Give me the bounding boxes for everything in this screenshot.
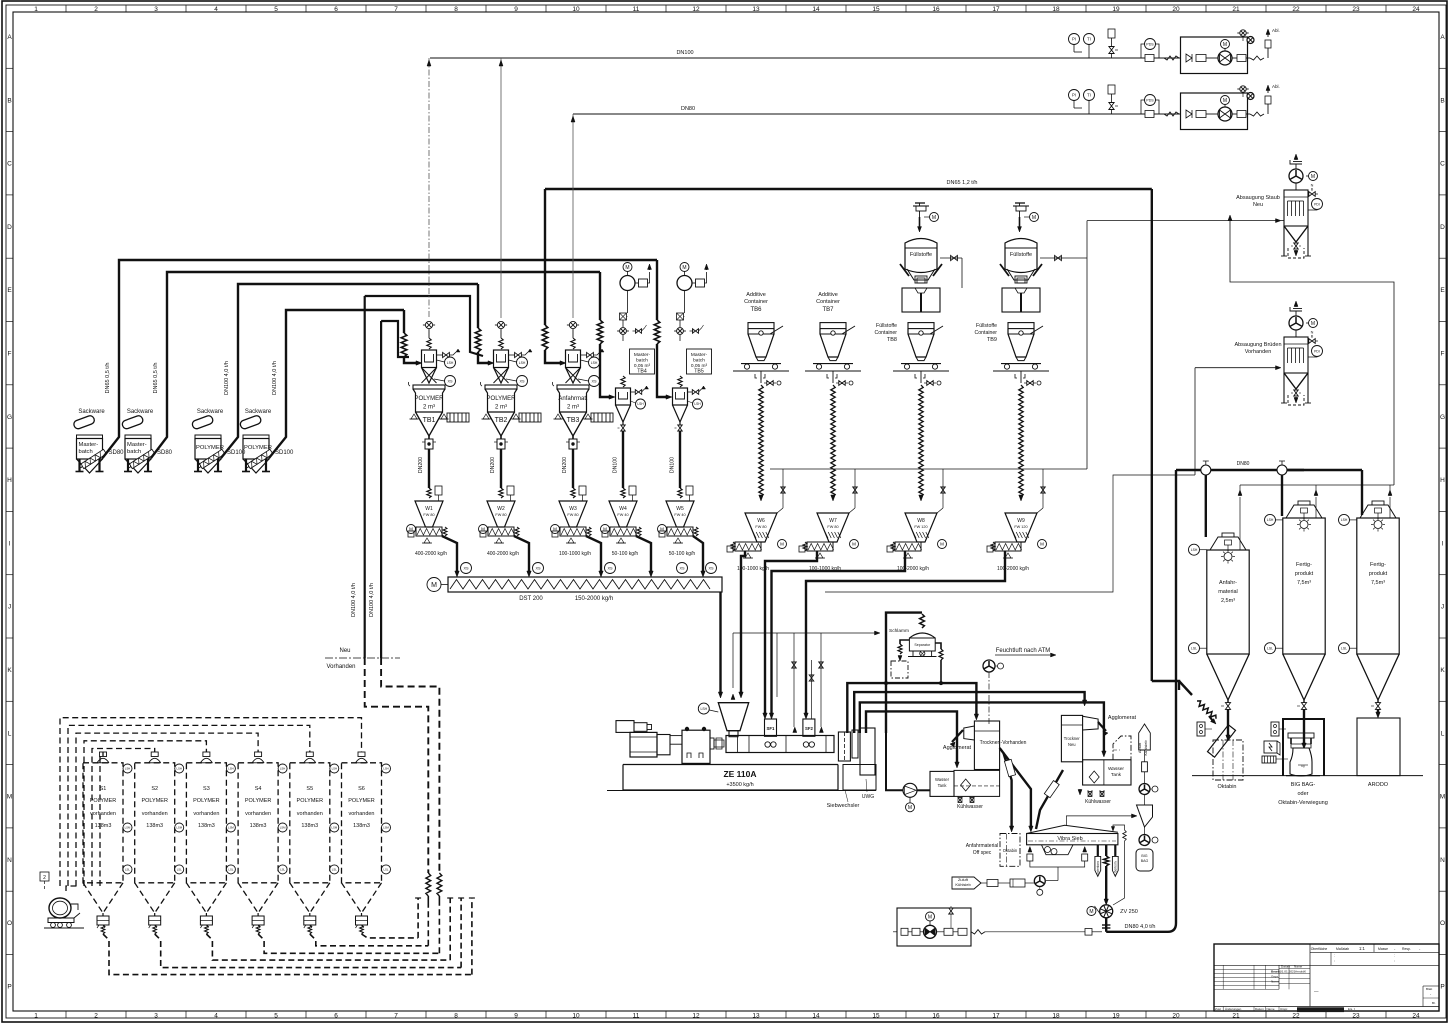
vacuum valve line TB8: [940, 257, 962, 259]
silo dome: [252, 758, 264, 763]
svg-text:138m3: 138m3: [250, 823, 267, 829]
bag spout and frame: [907, 269, 935, 280]
buffer hopper: [485, 385, 517, 389]
svg-text:15: 15: [872, 1013, 880, 1020]
drop to silo 2: [1281, 475, 1283, 516]
melt/water bold lines from UWG (staircase to dryers): [847, 683, 976, 733]
svg-text:LSM: LSM: [280, 826, 286, 830]
DN100 silo transfer risers (S-silos to TB1/TB2): [364, 296, 366, 658]
svg-text:Master-: Master-: [127, 442, 147, 448]
ground line: [607, 790, 876, 792]
weigh hopper: [415, 501, 443, 527]
hoist: [916, 206, 926, 211]
drop to silo 1: [1205, 475, 1207, 537]
tanker truck: [49, 898, 71, 918]
vent valve line: [937, 508, 943, 513]
vacuum line to top header: [428, 58, 430, 318]
svg-text:B: B: [7, 97, 11, 104]
svg-text:Master-: Master-: [79, 442, 99, 448]
svg-text:Wasser: Wasser: [1108, 766, 1124, 772]
svg-text:D: D: [7, 224, 12, 231]
weigh feeder W4: [621, 488, 625, 498]
motor M: [407, 525, 416, 534]
svg-text:A: A: [7, 34, 12, 41]
svg-text:—: —: [1314, 989, 1319, 994]
discharge spout: [443, 527, 447, 536]
svg-text:L: L: [1441, 730, 1445, 737]
svg-text:DN200: DN200: [418, 457, 424, 473]
vent box: [629, 486, 636, 495]
svg-text:J: J: [8, 604, 11, 611]
svg-text:Oktabin: Oktabin: [1218, 784, 1237, 790]
BIG BAG small: [1136, 849, 1153, 871]
svg-text:Unterkorn: Unterkorn: [1096, 861, 1100, 875]
svg-text:LSH: LSH: [447, 361, 454, 365]
svg-text:2 m³: 2 m³: [423, 405, 435, 411]
docking valve below floor: [755, 374, 765, 378]
legs: [197, 459, 199, 471]
extruder base frame: [623, 765, 838, 791]
docking cone: [756, 357, 766, 361]
svg-text:Feuchtluft nach ATM: Feuchtluft nach ATM: [996, 648, 1051, 654]
vent box: [579, 486, 586, 495]
legs: [245, 459, 247, 471]
instrument XS: [589, 376, 600, 387]
svg-text:19: 19: [1112, 6, 1120, 13]
svg-text:POLYMER: POLYMER: [193, 798, 220, 804]
svg-text::: :: [1334, 954, 1335, 958]
svg-text:LSM: LSM: [228, 826, 234, 830]
svg-text:Füllstoffe: Füllstoffe: [876, 323, 897, 329]
svg-text:LSH: LSH: [519, 361, 526, 365]
svg-text:Name: Name: [1294, 965, 1303, 969]
silo dome: [200, 758, 212, 763]
vacuum pump with motor: [680, 263, 689, 272]
instrument LSH: [636, 399, 646, 409]
svg-text:XS: XS: [607, 566, 613, 570]
instrument PDS with bypass: [1145, 95, 1156, 106]
DN80 4,0 t/h line: [1106, 470, 1176, 932]
agitator arm: [1030, 326, 1043, 334]
svg-text:I: I: [9, 540, 11, 547]
bold discharge route: [741, 551, 745, 694]
svg-text:Fertig-: Fertig-: [1296, 562, 1312, 568]
silo body (dashed): [290, 763, 330, 883]
vacuum pump with motor: [623, 263, 632, 272]
branch to off-spec Oktabin with slide gate: [1004, 753, 1012, 828]
svg-text:138m3: 138m3: [301, 823, 318, 829]
vent valve with flag: [509, 354, 516, 356]
silo vent header to filters: [1240, 484, 1394, 486]
discharge valve: [1303, 700, 1305, 703]
vacuum line to top header: [572, 114, 574, 318]
vent valve with flag: [437, 354, 444, 356]
receiver with filter: [494, 350, 509, 368]
svg-text:LSL: LSL: [1267, 646, 1273, 650]
svg-text:LSH: LSH: [280, 767, 285, 771]
svg-text:2,5m³: 2,5m³: [1221, 598, 1235, 604]
silo cone: [1207, 654, 1249, 700]
svg-text:1: 1: [34, 1013, 38, 1020]
coil above receiver: [678, 376, 682, 387]
level switches: [382, 764, 391, 773]
receiver cone: [422, 368, 437, 384]
discharge screw diagonal: [199, 449, 225, 468]
svg-text:LSM: LSM: [125, 826, 131, 830]
motor M: [1038, 540, 1047, 549]
svg-text:vorhanden: vorhanden: [142, 811, 168, 817]
svg-text:138m3: 138m3: [353, 823, 370, 829]
UWG discharge block: [860, 728, 875, 775]
weigh hopper: [487, 501, 515, 527]
silo cone (dashed): [238, 883, 278, 913]
svg-text:ArnoldK: ArnoldK: [1295, 970, 1307, 974]
instrument TI: [1084, 90, 1095, 101]
svg-text:17: 17: [992, 6, 1000, 13]
conveyor discharge to extruder hopper: [719, 592, 721, 694]
vent box with valve: [1108, 29, 1115, 38]
instrument LSH: [589, 357, 600, 368]
svg-text:H: H: [1440, 477, 1445, 484]
svg-text:oder: oder: [1297, 791, 1308, 797]
top dome: [1210, 537, 1246, 550]
svg-text:12: 12: [692, 6, 700, 13]
silo fill lines (dashed, from truck risers to silo tops): [60, 718, 362, 886]
svg-text:Oberfläche: Oberfläche: [1311, 947, 1328, 951]
svg-text:M: M: [1089, 909, 1093, 915]
svg-text:LSL: LSL: [1191, 646, 1197, 650]
svg-text:produkt: produkt: [1295, 571, 1314, 577]
svg-text:4: 4: [214, 6, 218, 13]
support feet: [555, 414, 561, 419]
Abluft Kühlsieb tag: [1139, 724, 1151, 750]
vent box: [507, 486, 514, 495]
svg-text:Anfahr-: Anfahr-: [1219, 580, 1237, 586]
discharge valve box: [500, 436, 502, 439]
weigh feeder W9: [1005, 513, 1037, 542]
capped risers at right end of manifold rows: [417, 898, 419, 938]
svg-text:Absaugung Brüden: Absaugung Brüden: [1234, 342, 1281, 348]
svg-text:2 m³: 2 m³: [567, 405, 579, 411]
svg-text:DN80 4,0 t/h: DN80 4,0 t/h: [1125, 924, 1156, 930]
svg-text:16: 16: [932, 6, 940, 13]
svg-text:Resp.: Resp.: [1402, 947, 1411, 951]
svg-text:24: 24: [1412, 6, 1420, 13]
svg-text:TB5: TB5: [694, 369, 704, 375]
svg-text:M: M: [7, 794, 12, 801]
svg-text:2: 2: [94, 1013, 98, 1020]
blower package bottom: [897, 908, 971, 946]
vent valve line: [777, 508, 783, 513]
cone hopper: [1284, 372, 1308, 374]
side feeder SF1: [765, 719, 777, 736]
svg-text:Trockner: Trockner: [1064, 736, 1081, 741]
drop to silo 3: [1361, 470, 1363, 515]
svg-text:Sackware: Sackware: [197, 409, 224, 415]
silo cone (dashed): [135, 883, 175, 913]
big bag weighing frame: [1283, 719, 1324, 776]
receiver cone: [494, 368, 509, 384]
vent header for W6-W9 with riser to filter: [770, 468, 1087, 470]
screen changer Siebwechsler: [838, 732, 850, 761]
svg-text:P: P: [7, 984, 11, 991]
discharge tray with screw: [488, 527, 514, 536]
flex joint right: [1250, 112, 1264, 116]
docking valve below floor: [827, 374, 837, 378]
svg-text:S5: S5: [306, 786, 313, 792]
svg-text:TI: TI: [1087, 37, 1091, 42]
svg-text:F: F: [1441, 351, 1445, 358]
sieve spring mounts: [1029, 849, 1031, 852]
legs: [1283, 373, 1285, 403]
svg-text:vorhanden: vorhanden: [297, 811, 323, 817]
name/date block: [1279, 968, 1310, 970]
flange below ZV: [1105, 918, 1107, 932]
load cell boxes silo1: [1197, 722, 1205, 736]
weigh hopper: [666, 501, 694, 527]
instrument LSH: [1339, 514, 1350, 525]
vent pipe with arrow: [1389, 497, 1391, 518]
svg-text:23: 23: [1352, 6, 1360, 13]
filter body with bags: [1284, 337, 1308, 373]
instrument LSH: [1265, 514, 1276, 525]
bold line down to weigh feeder: [500, 449, 502, 488]
coupling: [710, 738, 714, 749]
svg-text:Masse: Masse: [1378, 947, 1388, 951]
svg-text:W7: W7: [829, 518, 837, 524]
vent arrows at barrel: [794, 729, 796, 732]
svg-text:vorhanden: vorhanden: [90, 811, 116, 817]
dryer 1 Trockner Vorhanden: [974, 721, 999, 770]
thin line to silo vent riser: [825, 475, 1195, 592]
svg-text:7: 7: [394, 1013, 398, 1020]
flex joint right: [1250, 56, 1264, 60]
suction lance into Oktabin with coil: [1179, 681, 1192, 695]
svg-text:150-2000 kg/h: 150-2000 kg/h: [575, 596, 613, 602]
svg-text:SF2: SF2: [805, 726, 813, 731]
relief/vent on box: [1240, 30, 1246, 36]
separator: [909, 633, 935, 638]
svg-text:LSH: LSH: [176, 767, 181, 771]
svg-text:138m3: 138m3: [198, 823, 215, 829]
svg-text:LSL: LSL: [332, 867, 337, 871]
motor M: [658, 525, 667, 534]
svg-text:XS: XS: [708, 566, 714, 570]
svg-text:Blatt: Blatt: [1426, 987, 1432, 991]
discharge valve and arrows: [1294, 390, 1299, 396]
discharge valve: [309, 913, 311, 916]
svg-text:24: 24: [1412, 1013, 1420, 1020]
svg-text:7: 7: [394, 6, 398, 13]
title block grid: [1214, 964, 1439, 966]
hopper cone: [560, 412, 587, 436]
diverter valve 1: [1201, 465, 1211, 475]
discharge tray with screw: [416, 527, 442, 536]
svg-text:TB3: TB3: [567, 417, 580, 424]
svg-text:S2: S2: [151, 786, 158, 792]
svg-text:100-2000 kg/h: 100-2000 kg/h: [997, 566, 1029, 572]
svg-text:5: 5: [274, 1013, 278, 1020]
weigh feeder W8: [905, 513, 937, 542]
vibrator hatch: [519, 413, 541, 422]
svg-text:LSM: LSM: [383, 826, 389, 830]
svg-text:W5: W5: [676, 506, 684, 512]
pump vent riser: [705, 272, 707, 283]
svg-text:SD80: SD80: [157, 450, 173, 456]
svg-text:DN80: DN80: [681, 106, 695, 112]
blower package box: [1181, 37, 1248, 74]
water tank 2: [1083, 760, 1131, 785]
svg-text:I: I: [1442, 540, 1444, 547]
svg-text:01.01.2021: 01.01.2021: [1280, 970, 1296, 974]
additive container on trolley: [748, 323, 774, 329]
svg-text:Agglomerat: Agglomerat: [943, 745, 972, 751]
coil above receiver: [427, 338, 431, 349]
svg-text:Datum: Datum: [1255, 1007, 1264, 1011]
svg-text:M: M: [1040, 542, 1044, 547]
dust bucket (dashed): [1288, 248, 1304, 258]
svg-text:LSH: LSH: [700, 707, 707, 711]
rotary valve ZV 250: [1100, 905, 1113, 918]
discharge spout: [515, 527, 519, 536]
svg-text:16: 16: [932, 1013, 940, 1020]
svg-text:M: M: [932, 215, 936, 221]
svg-text::: :: [1334, 959, 1335, 963]
agitator arm: [842, 326, 855, 334]
svg-text:SD80: SD80: [109, 450, 125, 456]
motor M: [1309, 172, 1318, 181]
water pump with motor: [903, 783, 917, 797]
pump: [1218, 51, 1232, 65]
svg-text:8: 8: [454, 6, 458, 13]
svg-text:Container: Container: [816, 299, 840, 305]
svg-text:Neu: Neu: [339, 648, 350, 654]
conveyor drive motor: [427, 578, 441, 592]
svg-text:G: G: [1440, 414, 1445, 421]
silo discharge manifold (dashed rows): [360, 925, 364, 934]
bold line down to weigh feeder: [572, 449, 574, 488]
svg-text:B: B: [1311, 335, 1314, 339]
svg-text:ZE 110A: ZE 110A: [723, 769, 756, 779]
svg-text:Tank: Tank: [1111, 772, 1122, 778]
floor line: [993, 370, 1049, 372]
trolley: [901, 363, 941, 365]
vacuum line to top header: [500, 58, 502, 318]
agitator arm: [930, 326, 943, 334]
vent stack with silencer: [1295, 303, 1297, 307]
sack: [191, 415, 214, 430]
bold line down to weigh feeder: [679, 431, 681, 488]
svg-text:LSL: LSL: [1341, 646, 1347, 650]
svg-text:A: A: [1440, 34, 1445, 41]
receiver with filter: [566, 350, 581, 368]
svg-text:Separator: Separator: [914, 643, 931, 647]
Vibra Sieb: [1027, 825, 1118, 833]
svg-text:Sackware: Sackware: [127, 409, 154, 415]
svg-text:13: 13: [752, 6, 760, 13]
svg-text:LSH: LSH: [332, 767, 337, 771]
inlet valve on vacuum line: [497, 321, 504, 328]
silo dome: [97, 758, 109, 763]
svg-text:FW 40: FW 40: [674, 513, 685, 517]
svg-text:17: 17: [992, 1013, 1000, 1020]
vibrator hatch: [447, 413, 469, 422]
svg-text:DN65 0,5 t/h: DN65 0,5 t/h: [153, 363, 159, 394]
silencer riser Abl.: [1267, 104, 1269, 114]
bold line down to weigh feeder: [428, 449, 430, 488]
suction line into filter 2: [1195, 367, 1276, 369]
svg-text:400-2000 kg/h: 400-2000 kg/h: [415, 551, 447, 557]
discharge spout: [694, 527, 698, 536]
hopper cone: [488, 412, 515, 436]
cone hopper: [1284, 225, 1308, 227]
svg-text:Schlamm: Schlamm: [889, 628, 909, 634]
additive container on trolley: [908, 323, 934, 329]
instrument LSL: [1189, 643, 1200, 654]
agglomerate chute from dryer1 to Vibra Sieb: [1000, 748, 1031, 828]
svg-text:DN100 4,0 t/h: DN100 4,0 t/h: [369, 583, 375, 617]
instrument PDI: [1312, 199, 1323, 210]
fluidizer/vent symbol: [1227, 545, 1229, 552]
svg-text:BIG BAG-: BIG BAG-: [1291, 782, 1316, 788]
bold discharge line: [514, 536, 529, 573]
silencer riser Abl.: [1267, 48, 1269, 58]
motor M: [551, 525, 560, 534]
riser from silo vent header to filter line: [1230, 221, 1394, 485]
motor M: [479, 525, 488, 534]
extruder barrel: [726, 736, 834, 753]
bold discharge line: [586, 536, 601, 573]
svg-text:POLYMER: POLYMER: [244, 445, 272, 451]
svg-text:6: 6: [334, 1013, 338, 1020]
svg-text:DN200: DN200: [562, 457, 568, 473]
discharge screw diagonal: [247, 449, 273, 468]
additive container on trolley: [820, 323, 846, 329]
svg-text:Kühlsieb: Kühlsieb: [1143, 740, 1148, 756]
svg-text:Container: Container: [875, 330, 898, 336]
svg-text:Abl.: Abl.: [1272, 28, 1280, 33]
svg-text:W8: W8: [917, 518, 925, 524]
svg-text:DN100 4,0 t/h: DN100 4,0 t/h: [351, 583, 357, 617]
separator feed riser: [886, 613, 922, 733]
svg-text:TB8: TB8: [887, 337, 897, 343]
cooling water valves dryer1: [958, 796, 974, 802]
svg-text:D: D: [1440, 224, 1445, 231]
svg-text:13: 13: [752, 1013, 760, 1020]
svg-text:batch: batch: [79, 449, 93, 455]
svg-text:LSH: LSH: [125, 767, 130, 771]
svg-text:N: N: [7, 857, 12, 864]
floor line: [805, 370, 861, 372]
svg-text:E: E: [7, 287, 12, 294]
svg-text:14: 14: [812, 1013, 820, 1020]
svg-text:material: material: [1218, 589, 1238, 595]
svg-text:Additive: Additive: [746, 292, 766, 298]
inlet valve on vacuum line: [425, 321, 432, 328]
svg-text:10: 10: [572, 1013, 580, 1020]
svg-text:POLYMER: POLYMER: [348, 798, 375, 804]
svg-text:15: 15: [872, 6, 880, 13]
svg-text:kg: kg: [1301, 764, 1305, 768]
extruder main feed hopper: [718, 703, 748, 731]
svg-text:1: 1: [34, 6, 38, 13]
scale indicator with lightning: [1264, 741, 1277, 753]
svg-text:TB7: TB7: [822, 307, 834, 313]
weigh feeder W3: [571, 488, 575, 498]
vent pipe with arrow: [1239, 497, 1241, 550]
relief/vent on box: [1240, 86, 1246, 92]
hopper cone: [77, 459, 103, 473]
